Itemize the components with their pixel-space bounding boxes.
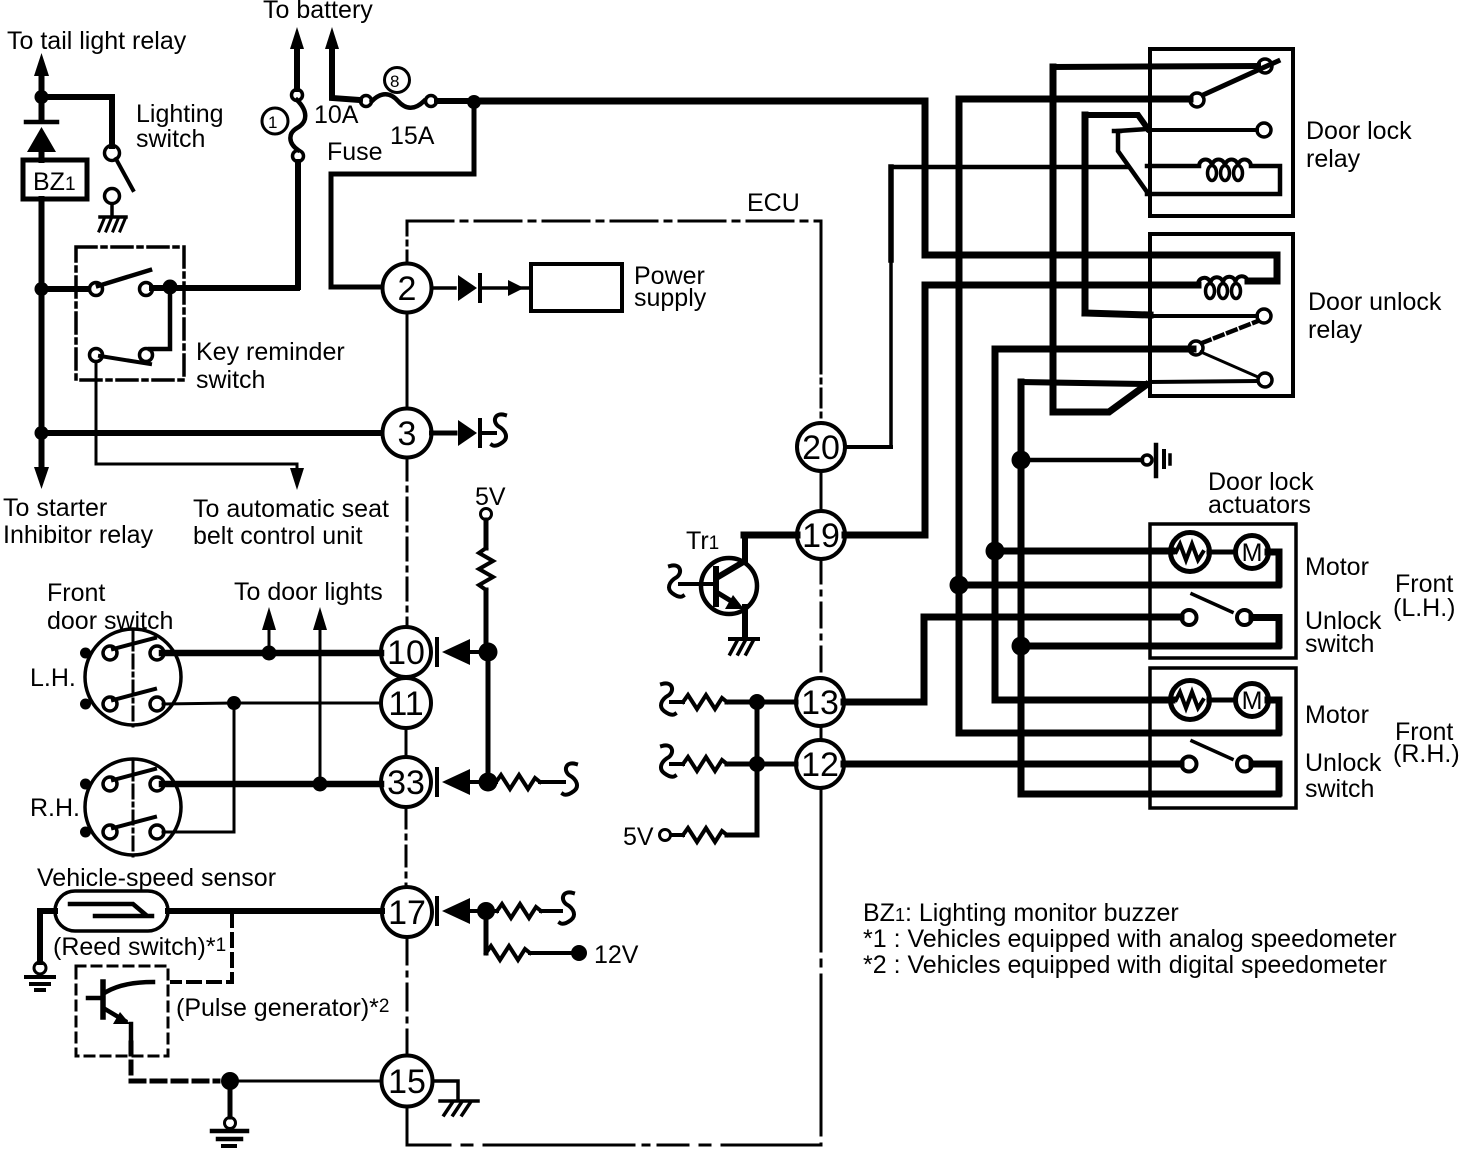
svg-text:5V: 5V: [623, 823, 654, 851]
svg-text:15A: 15A: [390, 122, 435, 150]
svg-text:relay: relay: [1306, 145, 1361, 173]
svg-text:Key reminder: Key reminder: [196, 338, 345, 366]
svg-text:Door unlock: Door unlock: [1308, 288, 1442, 316]
svg-text:Lighting: Lighting: [136, 100, 224, 128]
svg-text:11: 11: [388, 685, 423, 723]
svg-text:ECU: ECU: [747, 189, 800, 217]
svg-text:belt control unit: belt control unit: [193, 522, 363, 550]
svg-text:17: 17: [388, 894, 426, 932]
svg-text:12: 12: [801, 746, 839, 784]
svg-text:door switch: door switch: [47, 607, 173, 635]
svg-text:To tail light relay: To tail light relay: [7, 27, 187, 55]
svg-text:Motor: Motor: [1305, 701, 1369, 729]
svg-text:To battery: To battery: [263, 0, 373, 24]
svg-text:L.H.: L.H.: [30, 664, 76, 692]
svg-text:supply: supply: [634, 284, 707, 312]
svg-text:*2 : Vehicles equipped with di: *2 : Vehicles equipped with digital spee…: [863, 951, 1387, 979]
svg-text:switch: switch: [1305, 630, 1374, 658]
svg-text:15: 15: [388, 1063, 426, 1101]
svg-text:actuators: actuators: [1208, 491, 1311, 519]
svg-text:Inhibitor relay: Inhibitor relay: [3, 521, 154, 549]
svg-text:To door lights: To door lights: [234, 578, 383, 606]
svg-text:(R.H.): (R.H.): [1393, 740, 1460, 768]
svg-text:Front: Front: [47, 579, 105, 607]
svg-text:8: 8: [390, 72, 399, 91]
svg-text:relay: relay: [1308, 316, 1363, 344]
svg-text:(Reed switch)*1: (Reed switch)*1: [53, 933, 226, 961]
svg-text:(Pulse generator)*2: (Pulse generator)*2: [176, 994, 389, 1022]
svg-text:*1 : Vehicles equipped with an: *1 : Vehicles equipped with analog speed…: [863, 925, 1397, 953]
svg-text:M: M: [1242, 687, 1263, 715]
svg-text:Unlock: Unlock: [1305, 749, 1382, 777]
svg-text:switch: switch: [1305, 775, 1374, 803]
svg-text:19: 19: [802, 517, 840, 555]
svg-text:switch: switch: [196, 366, 265, 394]
svg-text:33: 33: [387, 764, 425, 802]
svg-text:10: 10: [387, 634, 425, 672]
svg-text:5V: 5V: [475, 483, 506, 511]
svg-text:To automatic seat: To automatic seat: [193, 495, 389, 523]
svg-text:10A: 10A: [314, 101, 359, 129]
svg-text:R.H.: R.H.: [30, 794, 80, 822]
svg-text:3: 3: [398, 415, 417, 453]
svg-text:To starter: To starter: [3, 494, 107, 522]
svg-text:BZ1: Lighting monitor buzzer: BZ1: Lighting monitor buzzer: [863, 899, 1179, 927]
svg-text:12V: 12V: [594, 941, 639, 969]
svg-text:(L.H.): (L.H.): [1393, 594, 1456, 622]
svg-text:Fuse: Fuse: [327, 138, 383, 166]
svg-text:switch: switch: [136, 125, 205, 153]
svg-text:Door lock: Door lock: [1306, 117, 1412, 145]
svg-text:20: 20: [802, 429, 840, 467]
svg-text:M: M: [1242, 539, 1263, 567]
svg-text:13: 13: [801, 684, 839, 722]
svg-text:Vehicle-speed sensor: Vehicle-speed sensor: [37, 864, 276, 892]
svg-text:Motor: Motor: [1305, 553, 1369, 581]
svg-text:1: 1: [268, 113, 277, 132]
svg-text:2: 2: [398, 270, 417, 308]
